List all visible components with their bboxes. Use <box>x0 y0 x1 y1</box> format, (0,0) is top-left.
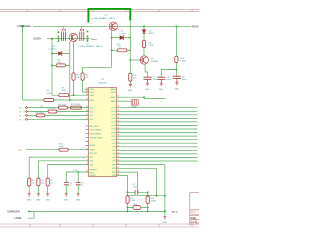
wire U2 top-left pin row 89.3 stub <box>85 88 89 90</box>
svg-text:VC15: VC15 <box>111 122 116 124</box>
ground below C3 <box>65 194 68 196</box>
resistor R8 <box>72 73 75 81</box>
resistor R11 <box>129 73 132 81</box>
resistor R9 <box>59 94 69 97</box>
svg-text:VC10: VC10 <box>111 139 116 141</box>
resistor R12 <box>112 49 130 52</box>
junction R12 rail right <box>129 50 131 52</box>
resistor R15 <box>175 56 178 62</box>
svg-text:12: 12 <box>117 156 119 158</box>
wire gate branch rail <box>83 50 112 73</box>
resistor R10 <box>142 40 145 47</box>
resistor R3 label <box>50 180 53 184</box>
capacitor C3 label <box>70 183 72 187</box>
svg-text:10k: 10k <box>50 182 53 184</box>
resistor R8 label <box>77 75 80 79</box>
IC U2 right pin names <box>111 89 117 177</box>
svg-text:GND: GND <box>27 200 32 202</box>
svg-text:VC11: VC11 <box>111 136 115 138</box>
svg-text:21: 21 <box>117 124 119 126</box>
junction cap row <box>77 171 79 173</box>
svg-text:GND: GND <box>45 200 50 202</box>
resistor R11 label <box>133 75 136 79</box>
junction C6 left <box>127 192 129 194</box>
junction bottom rail x127.5 low <box>127 211 129 213</box>
junction LOAD+ rail at x52 <box>51 38 53 40</box>
wire TS1 staircase <box>29 157 88 178</box>
resistor R14 <box>59 148 68 151</box>
connector J1 SMBus <box>131 100 139 105</box>
svg-text:VC9: VC9 <box>112 143 116 145</box>
svg-text:Pack+: Pack+ <box>91 39 98 41</box>
svg-text:GND: GND <box>76 200 81 202</box>
capacitor C7 <box>144 77 152 79</box>
junction trunk A R4 <box>51 65 53 67</box>
svg-text:CHARGER+: CHARGER+ <box>17 25 32 28</box>
svg-text:REGSRC: REGSRC <box>90 169 98 171</box>
wire risers from CHARGER+ rail to Q2 gates <box>64 26 82 29</box>
junction LOAD+ rail at x58.5 <box>58 38 60 40</box>
wire R5 to U2 pin <box>83 80 89 92</box>
svg-text:22: 22 <box>117 120 119 122</box>
svg-text:VC0: VC0 <box>112 161 116 163</box>
svg-text:DSG_PWRGD: DSG_PWRGD <box>90 134 102 136</box>
svg-text:VC13: VC13 <box>111 129 116 131</box>
junction bottom rail x165.3 <box>164 195 166 197</box>
svg-text:10k: 10k <box>133 78 136 80</box>
junction PACK+ rail at x144 <box>143 26 145 28</box>
transistor Q7 label <box>91 15 116 20</box>
svg-text:26: 26 <box>117 106 119 108</box>
svg-text:REG18: REG18 <box>90 175 96 177</box>
ground below C8 <box>160 80 163 86</box>
svg-text:VC17: VC17 <box>111 115 116 117</box>
svg-text:TS2: TS2 <box>90 161 93 163</box>
svg-text:100R: 100R <box>59 146 64 148</box>
wire row B3 <box>27 114 89 116</box>
wire row B2 <box>27 119 89 121</box>
junction bottom rail x156.4 <box>156 195 158 197</box>
transistor Q2 junction dots <box>58 31 89 42</box>
wire column x129.9 from bracket to Q4 row <box>129 20 131 60</box>
diode D2 zener <box>52 51 70 55</box>
svg-text:VC7: VC7 <box>112 150 116 152</box>
ground below R3 <box>46 194 49 196</box>
svg-text:100R: 100R <box>62 90 67 92</box>
svg-text:17: 17 <box>117 138 119 140</box>
transistor Q2 pin dots <box>62 29 84 30</box>
ground below R11 <box>129 85 132 87</box>
IC U2 left pin names <box>90 89 104 177</box>
sheet border top <box>0 9 199 11</box>
svg-text:+2.5V: +2.5V <box>72 170 78 172</box>
svg-text:10k: 10k <box>77 77 80 79</box>
junction CHARGER- start <box>28 211 30 213</box>
wire U2 right fan <box>117 108 198 161</box>
IC U2 reference label <box>99 79 108 84</box>
wire trunk B x65.7 <box>69 42 71 101</box>
capacitor C9 label <box>182 76 186 81</box>
svg-text:VC3: VC3 <box>90 115 94 117</box>
svg-text:B12+: B12+ <box>20 108 30 110</box>
svg-text:15: 15 <box>117 145 119 147</box>
svg-text:VC5: VC5 <box>112 157 116 159</box>
svg-text:R20 100R: R20 100R <box>58 104 67 106</box>
svg-text:DSG: DSG <box>90 92 94 94</box>
svg-text:Title:: Title: <box>191 216 197 220</box>
svg-text:ALERT: ALERT <box>90 144 97 147</box>
wire thick green bracket over Q7 <box>88 9 130 23</box>
svg-text:GND: GND <box>163 222 168 224</box>
wire C8 top to R15 node <box>161 70 176 75</box>
transistor Q4 <box>140 56 148 64</box>
svg-text:1.00M: 1.00M <box>148 45 153 47</box>
junction bottom rail x147.7 low <box>147 211 149 213</box>
resistor R17 bridge <box>128 206 148 210</box>
svg-text:19: 19 <box>117 131 119 133</box>
junction gate at R12 rail <box>111 50 113 52</box>
diode D4 zener <box>112 35 130 40</box>
wire Q7 drain to PACK+ <box>118 25 192 27</box>
junction PACK- node <box>164 211 166 213</box>
resistor R18 <box>146 196 149 204</box>
resistor R16 label <box>130 198 135 202</box>
wire LOAD- link <box>28 211 34 218</box>
svg-text:R17: R17 <box>134 204 137 206</box>
svg-text:VC4: VC4 <box>90 111 94 113</box>
resistor R6 <box>44 99 54 102</box>
resistor R12 label <box>117 44 121 48</box>
junction D4 rail right <box>129 37 131 39</box>
svg-text:100n: 100n <box>182 79 186 81</box>
resistor R3 <box>46 178 49 186</box>
ground at PACK- <box>163 217 166 219</box>
svg-text:10: 10 <box>117 96 119 98</box>
wire bottom rail y195.7 <box>128 195 165 197</box>
svg-text:VC12: VC12 <box>111 132 116 134</box>
resistor R20 label <box>58 104 67 106</box>
svg-text:PACK-: PACK- <box>172 210 179 213</box>
resistor R21 <box>48 110 57 113</box>
capacitor C3 <box>64 183 69 185</box>
wire column x130.3 down to R11 <box>129 60 131 85</box>
svg-text:20: 20 <box>117 128 119 130</box>
svg-text:14: 14 <box>117 149 119 151</box>
wire SMB right segment <box>144 97 165 98</box>
svg-text:VC5: VC5 <box>90 107 94 109</box>
wire SRP staircase to PACK- column <box>117 165 165 212</box>
title block text <box>191 210 202 225</box>
svg-text:1.00M: 1.00M <box>180 61 186 63</box>
ground below R1 <box>28 194 31 196</box>
svg-text:KiCad E.D.A.: KiCad E.D.A. <box>191 222 199 225</box>
wire PACK+ column x175.5 <box>175 26 177 76</box>
svg-text:FUSE: FUSE <box>90 150 96 152</box>
svg-text:VC18: VC18 <box>111 111 116 113</box>
svg-text:Q_BMS_DEFAULT_NMOS: Q_BMS_DEFAULT_NMOS <box>91 17 116 20</box>
resistor R6 label <box>47 90 52 95</box>
resistor R9 label <box>62 88 67 93</box>
ground below C5 <box>77 194 80 196</box>
wire row B5 <box>27 107 89 109</box>
wire row B y100 <box>23 99 89 101</box>
svg-text:VC14: VC14 <box>111 125 116 127</box>
wire bottom long rail <box>29 210 165 212</box>
resistor R1 label <box>32 180 35 184</box>
svg-text:Q_BMS_DEFAULT_NMOS: Q_BMS_DEFAULT_NMOS <box>78 45 103 48</box>
wire REG1 row to caps <box>66 172 88 183</box>
svg-text:MRST: MRST <box>111 89 117 91</box>
junction SMBC <box>143 96 145 98</box>
transistor Q2 Q3 pair on LOAD+ rail <box>62 32 84 42</box>
resistor R2 label <box>41 180 44 184</box>
svg-text:18: 18 <box>117 135 119 137</box>
capacitor C9 <box>173 76 181 78</box>
diode D5 label <box>149 30 154 34</box>
svg-text:R22 100R: R22 100R <box>35 112 44 114</box>
svg-text:VC16: VC16 <box>111 118 116 120</box>
junction CHARGER+ <box>22 25 24 27</box>
wire CHARGER+ horizontal rail <box>33 25 107 27</box>
transistor Q7 <box>109 22 117 30</box>
IC U2 body <box>89 88 117 177</box>
svg-text:CAP1: CAP1 <box>90 94 95 97</box>
junction C6 right <box>147 192 149 194</box>
wire trunk A x52 <box>51 39 53 95</box>
sheet border bottom <box>0 224 199 227</box>
junction LOAD+ rail at x87.5 <box>87 38 89 40</box>
capacitor C6 <box>135 190 138 195</box>
wire SRN staircase <box>117 168 157 195</box>
resistor R16 <box>126 196 129 204</box>
resistor R15 label <box>180 58 186 63</box>
svg-text:9: 9 <box>117 100 118 102</box>
resistor R1 <box>28 178 31 186</box>
ground below R2 <box>37 194 40 196</box>
capacitor C8 label <box>166 76 170 81</box>
ground below C7 <box>146 80 149 86</box>
wire R18 leads <box>147 204 149 212</box>
svg-text:SYSOFF_PACK: SYSOFF_PACK <box>90 136 104 139</box>
resistor R5 <box>81 73 84 81</box>
svg-text:D_Zener: D_Zener <box>49 48 57 50</box>
svg-text:100n: 100n <box>133 187 137 189</box>
IC U2 unconnected left pin marks <box>86 126 88 145</box>
wire VSS staircase x127.5 <box>117 176 128 212</box>
resistor R5 label <box>86 75 89 79</box>
svg-text:VC2: VC2 <box>90 119 94 121</box>
IC U2 right pin numbers <box>117 96 119 176</box>
svg-text:GND: GND <box>174 88 179 90</box>
svg-text:1u: 1u <box>70 185 72 187</box>
svg-text:GND: GND <box>64 200 69 202</box>
wire Q4 emitter to C7 <box>145 64 147 75</box>
junction R15 bottom <box>176 69 178 71</box>
capacitor C8 <box>157 77 165 79</box>
svg-text:10k: 10k <box>118 46 121 48</box>
wire SMBC pin row <box>117 96 145 98</box>
resistor R4 label <box>58 59 61 64</box>
svg-text:1.00M: 1.00M <box>130 200 135 202</box>
svg-text:PUMH11: PUMH11 <box>151 61 159 63</box>
junction row B with trunk B <box>69 99 71 101</box>
wire pin staircase x137.6 <box>117 172 138 192</box>
svg-text:VC19: VC19 <box>111 107 116 109</box>
svg-text:BAT_RECH: BAT_RECH <box>90 125 100 128</box>
wire row B4 <box>27 111 89 113</box>
wire C7 top lead <box>148 75 162 77</box>
wire SMBD pin row <box>117 100 131 102</box>
wire row A y95.2 <box>52 94 89 96</box>
ground below C9 <box>175 79 178 86</box>
wire PACK- to ground <box>164 211 166 216</box>
svg-text:1u: 1u <box>81 185 83 187</box>
junction R17 right <box>147 207 149 209</box>
resistor R20 <box>59 106 68 109</box>
resistor R23 on row B5 <box>71 106 82 109</box>
wire Q4 base row <box>130 59 140 61</box>
wire column x144 <box>143 26 145 56</box>
svg-text:CHG_PWRGD: CHG_PWRGD <box>90 130 103 132</box>
svg-text:GND: GND <box>128 90 133 92</box>
svg-text:Sheet: /: Sheet: / <box>191 210 198 213</box>
svg-text:B8+: B8+ <box>20 112 30 114</box>
svg-text:VC8: VC8 <box>112 147 116 149</box>
svg-text:R23 1.00M: R23 1.00M <box>71 104 80 106</box>
svg-text:25: 25 <box>117 110 119 112</box>
svg-text:TS3: TS3 <box>90 164 93 166</box>
wire CHARGER+ vertical drop <box>22 26 24 100</box>
svg-text:SMBD: SMBD <box>111 101 117 103</box>
svg-text:GND: GND <box>145 89 150 91</box>
resistor R22 <box>36 114 45 117</box>
resistor R17 bridge label <box>134 204 137 206</box>
capacitor C7 label <box>153 76 157 81</box>
diode D4 label <box>119 31 126 35</box>
wire Q7 gate vertical <box>111 31 113 51</box>
wire C3 C5 bottom leads <box>66 185 78 194</box>
wire TS2 staircase <box>38 161 88 178</box>
resistor R18 label <box>151 198 156 202</box>
svg-text:BQ76940: BQ76940 <box>99 82 108 84</box>
junction Q4 base row <box>130 59 132 61</box>
svg-text:GND: GND <box>36 200 41 202</box>
svg-text:10k: 10k <box>41 182 44 184</box>
wire LOAD+ rail <box>47 38 90 40</box>
svg-text:PACK+: PACK+ <box>192 25 199 28</box>
svg-text:24: 24 <box>117 113 119 115</box>
svg-text:File: bms.sch: File: bms.sch <box>191 214 199 216</box>
diode D5 <box>142 30 145 34</box>
svg-text:RSCN: RSCN <box>111 92 117 94</box>
diode D2 label <box>49 46 57 51</box>
capacitor C5 <box>76 183 81 185</box>
svg-text:D_Zener: D_Zener <box>119 33 126 35</box>
resistor R4 <box>52 64 70 67</box>
svg-text:BTP_INT: BTP_INT <box>90 153 98 155</box>
wire C6 leads <box>128 192 148 195</box>
svg-text:11: 11 <box>117 160 119 162</box>
resistor R2 <box>37 178 40 186</box>
svg-text:CHG: CHG <box>90 89 95 91</box>
resistor R14 label <box>59 143 64 148</box>
junction PACK+ rail at x175.5 <box>176 26 178 28</box>
svg-text:B4+: B4+ <box>20 116 30 118</box>
wire R1 R2 R3 bottom leads <box>29 186 48 194</box>
transistor Q4 label <box>151 58 159 63</box>
IC U2 left pin numbers <box>86 88 88 173</box>
svg-text:R21 100R: R21 100R <box>47 108 56 110</box>
junction row A with R8 <box>73 94 75 96</box>
junction bottom rail x127.5 <box>127 195 129 197</box>
wire R14 row <box>26 149 89 151</box>
svg-text:100R: 100R <box>47 93 52 95</box>
svg-text:TS1: TS1 <box>90 157 93 159</box>
junction bottom rail x147.7 <box>147 195 149 197</box>
svg-text:BAT54: BAT54 <box>149 32 154 35</box>
svg-text:10k: 10k <box>32 182 35 184</box>
capacitor C5 label <box>81 183 83 187</box>
svg-text:LOAD-: LOAD- <box>15 217 23 220</box>
svg-text:SMBC: SMBC <box>111 97 117 99</box>
junction trunk A D2 <box>51 53 53 55</box>
svg-text:13: 13 <box>117 152 119 154</box>
svg-text:LOAD+: LOAD+ <box>33 38 42 41</box>
wire Q2 source to R8 <box>73 42 75 96</box>
svg-text:10k: 10k <box>86 77 89 79</box>
pin diamonds at row label ends <box>25 106 27 120</box>
title block frame <box>190 193 199 226</box>
svg-text:GND: GND <box>159 89 164 91</box>
svg-text:100n: 100n <box>166 79 170 81</box>
svg-text:PACK: PACK <box>90 99 96 102</box>
IC U2 left pin stubs <box>87 89 89 172</box>
svg-text:CHARGER-: CHARGER- <box>7 210 21 213</box>
resistor R10 label <box>148 42 153 46</box>
svg-text:100n: 100n <box>153 79 157 81</box>
junction gate at D4 rail <box>111 37 113 39</box>
svg-text:23: 23 <box>117 117 119 119</box>
svg-text:29: 29 <box>86 91 88 93</box>
svg-text:1.00M: 1.00M <box>151 200 156 202</box>
wire TS3 staircase <box>48 165 89 179</box>
capacitor C6 label <box>133 184 137 189</box>
junction R17 left <box>127 207 129 209</box>
svg-text:16: 16 <box>117 142 119 144</box>
svg-text:VC6: VC6 <box>112 154 116 156</box>
